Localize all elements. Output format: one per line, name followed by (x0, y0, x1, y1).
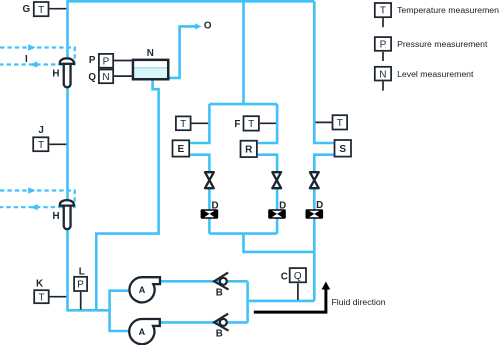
svg-text:T: T (38, 292, 44, 303)
svg-text:N: N (147, 48, 154, 59)
svg-text:T: T (38, 140, 44, 151)
svg-text:G: G (23, 4, 31, 15)
svg-text:D: D (279, 200, 286, 211)
svg-text:P: P (77, 280, 84, 291)
svg-text:Temperature measurement: Temperature measurement (397, 5, 499, 15)
svg-text:N: N (379, 69, 386, 80)
svg-text:C: C (281, 271, 288, 282)
svg-text:F: F (234, 119, 240, 130)
svg-text:B: B (216, 287, 223, 298)
svg-text:Level measurement: Level measurement (397, 69, 474, 79)
svg-text:B: B (216, 328, 223, 339)
svg-text:I: I (25, 54, 28, 65)
svg-text:P: P (103, 56, 110, 67)
svg-text:P: P (380, 40, 387, 51)
svg-text:K: K (36, 279, 43, 290)
svg-text:A: A (139, 285, 146, 295)
svg-text:D: D (212, 200, 219, 211)
svg-text:T: T (38, 5, 44, 16)
svg-text:L: L (79, 266, 85, 277)
svg-text:H: H (52, 69, 59, 80)
svg-text:A: A (139, 327, 146, 337)
svg-text:S: S (339, 144, 346, 155)
svg-text:P: P (89, 55, 96, 66)
svg-text:T: T (337, 118, 343, 129)
svg-text:J: J (38, 125, 43, 136)
svg-text:O: O (204, 20, 212, 31)
svg-text:N: N (102, 72, 109, 83)
svg-text:T: T (248, 119, 254, 130)
svg-text:Q: Q (294, 271, 302, 282)
svg-text:R: R (245, 145, 253, 156)
svg-text:H: H (53, 211, 60, 222)
svg-text:D: D (316, 200, 323, 211)
svg-text:Pressure measurement: Pressure measurement (397, 39, 488, 49)
svg-text:T: T (180, 119, 186, 130)
svg-text:T: T (380, 6, 386, 17)
svg-text:Q: Q (88, 72, 96, 83)
svg-text:Fluid direction: Fluid direction (332, 297, 386, 307)
svg-text:E: E (177, 144, 184, 155)
